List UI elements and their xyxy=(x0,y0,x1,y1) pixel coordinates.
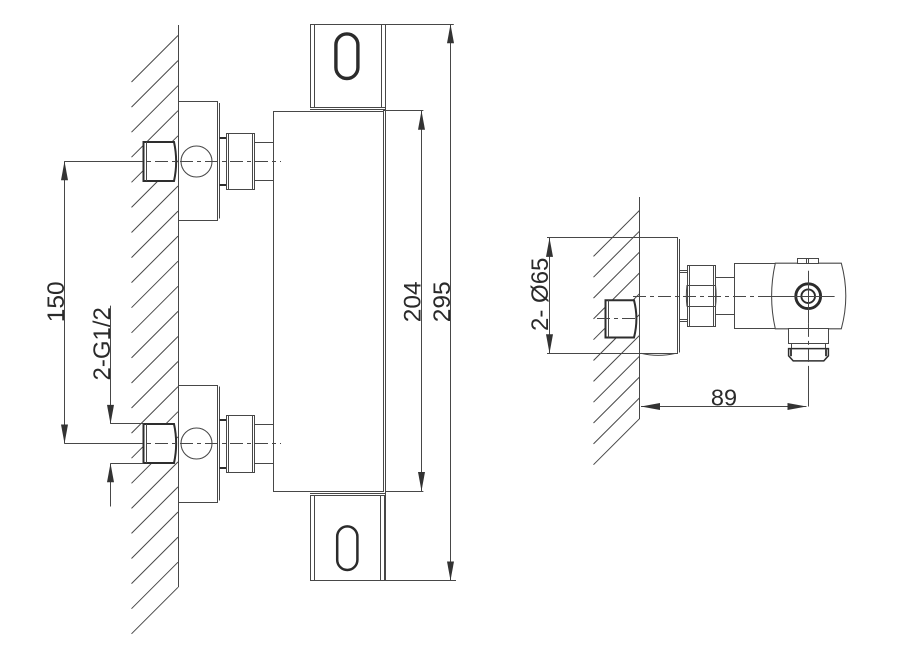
lower inlet pipe xyxy=(254,424,273,426)
knob top tab xyxy=(798,259,819,264)
valve body (front view) xyxy=(274,112,384,492)
outlet hose nut xyxy=(789,349,829,361)
wall face line (side view) xyxy=(639,197,641,419)
knob crosshair xyxy=(770,296,835,298)
svg-text:89: 89 xyxy=(711,384,737,410)
lower wall nut xyxy=(144,424,177,463)
side union hex nut xyxy=(688,266,716,327)
lower escutcheon plate xyxy=(179,386,218,503)
wall hatching (front view) xyxy=(132,36,179,634)
svg-text:295: 295 xyxy=(429,281,456,322)
svg-text:2-G1/2: 2-G1/2 xyxy=(89,307,116,380)
lower ball joint circle xyxy=(181,428,212,459)
upper wall nut xyxy=(144,142,177,181)
lower connection stubs xyxy=(220,419,227,421)
side inlet nipple xyxy=(606,300,637,337)
wall hatching (side view) xyxy=(594,211,640,465)
lower connection nut xyxy=(227,416,255,473)
wall face line (front view) xyxy=(178,25,180,587)
side escutcheon xyxy=(640,238,678,354)
dimension 2-G1/2 xyxy=(110,306,112,424)
body right edge line xyxy=(385,24,387,580)
upper connection nut xyxy=(227,134,255,190)
dimension 150 xyxy=(64,161,66,443)
outlet stub tier1 xyxy=(789,329,829,344)
outlet stub tier2 xyxy=(792,344,826,349)
svg-text:2- Ø65: 2- Ø65 xyxy=(527,258,554,331)
bottom bracket slot xyxy=(337,526,357,570)
side control knob xyxy=(772,263,846,329)
side nipple centerline xyxy=(597,318,648,320)
dimension 2-diam65 xyxy=(547,237,643,239)
top bracket slot xyxy=(336,34,358,79)
dimension 295 xyxy=(385,24,454,26)
lower inlet centerline xyxy=(64,443,138,445)
knob outer ring xyxy=(796,284,821,309)
top mounting bracket xyxy=(311,25,386,108)
upper escutcheon plate xyxy=(179,102,218,221)
svg-text:204: 204 xyxy=(400,281,427,322)
knob inner ring xyxy=(801,289,815,303)
side main centerline xyxy=(633,296,772,298)
upper ball joint circle xyxy=(181,146,212,177)
bottom mounting bracket xyxy=(311,496,385,581)
side pipe to valve xyxy=(716,277,735,279)
dimension 204 xyxy=(383,110,423,112)
upper inlet centerline xyxy=(64,161,138,163)
upper connection stubs xyxy=(220,137,227,139)
svg-text:150: 150 xyxy=(43,281,70,322)
side union stubs xyxy=(679,270,687,272)
side valve body rect xyxy=(735,264,776,329)
dimension 89 xyxy=(641,406,807,408)
upper inlet pipe xyxy=(254,142,273,144)
outlet centerline xyxy=(808,324,810,368)
